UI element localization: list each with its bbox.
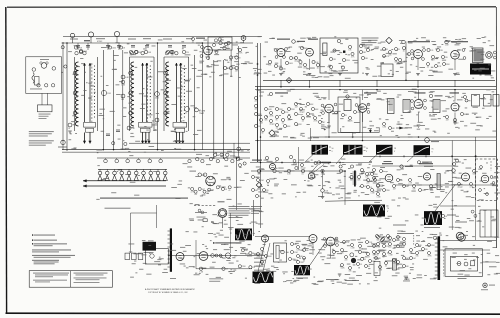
wire selector top rail	[97, 157, 250, 159]
volume control black box	[143, 242, 157, 251]
text noise crt area	[378, 250, 381, 253]
page border top rule	[7, 6, 496, 8]
audio output photo blob	[470, 64, 491, 75]
sound takeoff box	[208, 37, 232, 50]
wire IF vertical riser 1	[102, 50, 104, 150]
page border left rule	[5, 7, 8, 313]
audio output transformer T4 winding	[473, 48, 484, 63]
remote sound dashed leads	[194, 204, 216, 206]
tube V21 damper	[456, 232, 464, 240]
svg-text:56K: 56K	[148, 52, 152, 54]
svg-text:.047: .047	[257, 174, 260, 176]
ion trap circles	[457, 262, 461, 266]
horiz circles	[452, 169, 456, 173]
video IF can 3	[433, 100, 440, 113]
label 3RD VIDEO IF	[415, 92, 426, 93]
svg-text:220: 220	[283, 68, 286, 70]
svg-text:470K: 470K	[428, 255, 433, 257]
tuner riser circles	[61, 46, 64, 49]
svg-text:70: 70	[387, 208, 389, 210]
label 1ST VIDEO IF	[364, 92, 377, 93]
coil top hline T3	[164, 56, 189, 58]
wire row2 tube stubs down	[328, 113, 330, 123]
can internals	[342, 114, 345, 117]
svg-text:100K: 100K	[268, 109, 273, 111]
svg-text:56K: 56K	[377, 239, 381, 241]
output terminal labels column	[254, 253, 264, 256]
audio amp components	[402, 46, 405, 49]
V20 satellites	[490, 176, 493, 179]
svg-text:270K: 270K	[386, 190, 391, 192]
sound takeoff internals	[214, 39, 217, 42]
diamond junction B+	[386, 37, 392, 43]
IF transformer T3 slug lines	[175, 63, 177, 122]
dashed box lead	[443, 250, 445, 276]
svg-text:56K: 56K	[365, 58, 369, 60]
svg-text:danger: danger	[269, 122, 275, 125]
discriminator transformer box	[320, 38, 358, 73]
audio inter circles	[427, 63, 430, 66]
IF transformer T2 tap circles	[129, 71, 133, 75]
wire selector bar	[98, 168, 167, 170]
ion trap outer box	[445, 249, 483, 276]
svg-text:4.7K: 4.7K	[351, 57, 355, 59]
text noise remote area	[193, 231, 197, 234]
IF transformer T2 terminal circles top	[130, 52, 133, 55]
svg-text:470K: 470K	[446, 64, 451, 66]
power ground	[405, 277, 409, 279]
AGC keying box	[381, 64, 393, 77]
svg-text:6.8K: 6.8K	[131, 128, 135, 130]
svg-text:.047: .047	[194, 194, 197, 196]
table cell text 2	[33, 279, 67, 282]
speaker terminals	[494, 51, 497, 54]
diagonal wire vert	[435, 185, 455, 211]
svg-text:1.5M: 1.5M	[371, 192, 375, 194]
vert osc tube pin	[400, 165, 403, 168]
wire vert bus upper	[372, 165, 452, 167]
resistor R4	[121, 75, 125, 79]
remote switch tube V13	[218, 209, 227, 218]
svg-text:68: 68	[368, 266, 370, 268]
tube V6 audio amp	[414, 50, 423, 59]
audio tube V26 output	[326, 237, 335, 246]
neck bar top circle	[433, 236, 436, 239]
svg-text:220: 220	[254, 100, 257, 102]
resistor R1	[108, 46, 111, 49]
text noise video strip	[274, 130, 278, 133]
svg-text:.0022: .0022	[400, 169, 404, 171]
wire mixer box drops	[208, 50, 210, 60]
diamond junction sync	[256, 182, 262, 188]
wire audio top rail	[255, 236, 310, 238]
wire mixer top	[196, 42, 253, 44]
right box tube V20	[481, 175, 489, 183]
svg-text:1K: 1K	[345, 115, 348, 117]
svg-text:220: 220	[186, 52, 189, 54]
sound IF passive cluster	[264, 107, 267, 110]
wire left riser B	[260, 43, 262, 162]
sync sep pointer lines	[312, 165, 319, 173]
sound IF can inside box	[323, 43, 327, 56]
svg-text:6.8K: 6.8K	[310, 104, 314, 106]
audio amp tube V22	[176, 253, 184, 261]
svg-text:120: 120	[425, 249, 428, 251]
W2 white dividers	[348, 145, 350, 154]
waveform photo W5	[363, 205, 385, 217]
video det components	[445, 115, 448, 118]
svg-text:33K: 33K	[245, 250, 249, 252]
wire left riser A	[257, 87, 259, 162]
fine tuning can	[38, 105, 53, 112]
notes paragraph 4	[32, 249, 71, 250]
3rd video satellites	[411, 100, 414, 103]
sound IF satellites	[321, 104, 324, 107]
wire lower hline	[196, 268, 252, 270]
IF transformer T3 lead arrows	[175, 133, 177, 144]
wire audio drops	[330, 246, 332, 258]
fine tuning pins	[213, 182, 215, 184]
AGC line cap C9	[127, 126, 131, 130]
vert photo terminal	[441, 214, 444, 217]
note text alternate tuner A	[29, 131, 54, 132]
svg-text:220: 220	[252, 267, 255, 269]
svg-text:220: 220	[266, 190, 269, 192]
tube V11 video det	[451, 103, 459, 111]
mixer screen cap	[227, 41, 230, 44]
svg-text:50: 50	[332, 148, 334, 150]
wire sound strip bottom rail	[263, 79, 495, 81]
bypass caps under T1	[68, 123, 72, 127]
note text alternate tuner B	[29, 140, 54, 141]
audio amp left cluster	[383, 48, 386, 51]
remote note paragraph	[229, 205, 250, 208]
wire vert rail y185	[395, 184, 496, 186]
svg-text:danger: danger	[301, 166, 307, 169]
ampere rating text	[209, 277, 223, 280]
test point TP1	[70, 33, 74, 37]
tube V2 mixer	[204, 46, 213, 55]
svg-text:470K: 470K	[422, 190, 427, 192]
svg-text:56K: 56K	[389, 54, 393, 56]
notes paragraph 6	[32, 260, 59, 261]
svg-text:56K: 56K	[406, 186, 410, 188]
svg-text:1K: 1K	[123, 47, 126, 49]
svg-text:6.8K: 6.8K	[125, 77, 129, 79]
wire video row rail 2	[255, 89, 496, 91]
wire sync main bus	[251, 170, 345, 172]
IF transformer T3 terminal circles top	[165, 52, 168, 55]
wire sync lower shelf	[325, 200, 382, 201]
svg-text:56K: 56K	[306, 250, 310, 252]
disc transformer internals	[337, 39, 340, 42]
grounds video row	[327, 125, 331, 127]
page border right rule	[495, 7, 497, 248]
wire IF vertical riser 7	[213, 60, 215, 158]
table cell text 1	[33, 272, 69, 275]
svg-text:270K: 270K	[242, 266, 247, 268]
audio V26 satellites	[323, 238, 326, 241]
IF transformer T2 slug lines	[142, 63, 144, 122]
wire row1 to row2 connectors	[280, 80, 282, 86]
svg-text:.047: .047	[367, 256, 370, 258]
svg-text:56K: 56K	[392, 128, 396, 130]
long diagonal audio	[310, 239, 328, 266]
svg-text:10K: 10K	[268, 65, 272, 67]
vert components left	[371, 173, 374, 176]
svg-text:.047: .047	[393, 188, 396, 190]
tube V7 audio output	[451, 51, 460, 60]
junction dots on rails	[280, 86, 282, 88]
IF transformer T2 secondary dots	[150, 65, 151, 66]
diamond junction video	[269, 130, 275, 136]
osc section feed circles	[188, 159, 191, 162]
svg-text:1.5M: 1.5M	[357, 112, 361, 114]
power trans label	[385, 260, 392, 263]
svg-text:220: 220	[367, 182, 370, 184]
vert output transformer photo	[424, 212, 442, 226]
svg-text:V: V	[387, 211, 389, 213]
switch bar	[170, 228, 172, 271]
speaker	[486, 52, 493, 59]
phono motor label	[197, 216, 206, 219]
IF transformer T3 secondary dots	[184, 65, 185, 66]
svg-text:220: 220	[229, 60, 232, 62]
IF transformer T3 enclosure left	[163, 57, 165, 131]
svg-text:95: 95	[432, 149, 434, 151]
wire blob left riser	[298, 147, 300, 170]
tuner input coil L1	[32, 73, 34, 84]
test point TP3	[114, 31, 119, 36]
svg-text:10K: 10K	[365, 177, 369, 179]
filter cap box	[274, 243, 287, 262]
coil top stubs	[77, 43, 79, 50]
W7 leads diagonal	[258, 239, 266, 272]
TV phono jack squares	[125, 253, 130, 259]
crt neck bar	[438, 236, 441, 280]
remote amp inner circle	[150, 254, 154, 258]
svg-text:.05: .05	[225, 189, 227, 191]
selector contact towers	[99, 169, 101, 171]
audio tube V25 phase inv	[309, 235, 317, 243]
selector wiper arrow lower	[83, 185, 166, 187]
svg-text:1.5M: 1.5M	[199, 271, 203, 273]
svg-text:220: 220	[345, 259, 348, 261]
svg-text:15K: 15K	[416, 255, 420, 257]
svg-text:2.2K: 2.2K	[325, 190, 329, 192]
svg-text:.05: .05	[129, 55, 131, 57]
svg-text:.01: .01	[360, 264, 362, 266]
tuner cap block	[35, 77, 40, 86]
label VIDEO DET	[450, 92, 460, 93]
mixer satellite pins	[201, 46, 204, 49]
wire IF bottom bus 1	[62, 149, 250, 151]
svg-text:56K: 56K	[255, 190, 259, 192]
svg-text:15K: 15K	[333, 59, 337, 61]
coil top hline T2	[130, 56, 155, 58]
svg-text:.05: .05	[275, 127, 277, 129]
IF bus label smudges	[70, 39, 78, 40]
IF transformer T2 enclosure left	[129, 57, 131, 131]
tube V10 3rd video IF	[414, 100, 423, 109]
svg-text:2.2K: 2.2K	[379, 269, 383, 271]
IF transformer T1 terminal strip lower	[86, 128, 94, 132]
3rd video label circle	[429, 94, 432, 97]
limiter components	[312, 60, 315, 63]
waveform photo W2	[343, 145, 363, 155]
wire tuner output	[62, 71, 64, 73]
coil terminal circles top T2	[129, 50, 132, 53]
wire IF vertical riser 4	[157, 43, 159, 150]
dotted riser	[413, 235, 415, 245]
IF transformer T2 terminal strip lower	[141, 128, 151, 132]
B plus terminal	[483, 283, 487, 287]
wire osc right riser	[236, 158, 238, 210]
label AGC keyer	[252, 160, 262, 161]
tuner inner smudges	[40, 58, 49, 61]
wire IF top bus	[62, 42, 203, 44]
video det couple circles	[464, 96, 467, 99]
sound det can	[344, 100, 351, 111]
converter label	[196, 38, 205, 39]
arrow down y130	[369, 129, 371, 133]
mixer bias circles	[223, 66, 226, 69]
svg-text:470K: 470K	[374, 174, 379, 176]
IF transformer T2 core dashed line	[147, 63, 149, 122]
wire tuner to IF riser	[62, 44, 64, 150]
horiz osc tube V19	[462, 173, 470, 181]
IF transformer T1 terminal circles top	[75, 52, 78, 55]
wire top right drops	[474, 137, 476, 156]
IF transformer T3 terminal strip lower	[175, 128, 185, 132]
video det filter box 1	[472, 95, 480, 107]
svg-text:270K: 270K	[238, 53, 243, 55]
sync left components	[252, 176, 255, 179]
svg-text:68: 68	[377, 254, 379, 256]
svg-text:220: 220	[254, 108, 257, 110]
IF transformer T2 lead arrows	[142, 133, 144, 144]
wire sync upper rail	[250, 162, 372, 164]
wire IF vertical riser 8	[223, 60, 225, 158]
sync resistor ladder bar	[354, 171, 356, 187]
text noise sync area	[261, 168, 264, 171]
label pict tube hookup	[455, 222, 467, 223]
audio output tube V23	[199, 252, 208, 261]
deflection yoke box	[480, 210, 498, 237]
IF transformer T2 enclosure right	[153, 57, 155, 131]
wire IF vertical riser 5	[194, 55, 196, 150]
svg-text:.01: .01	[192, 41, 194, 43]
svg-text:1K: 1K	[227, 46, 230, 48]
tube V9 1st video IF	[358, 104, 367, 113]
speaker label	[190, 171, 197, 172]
audio right cluster	[341, 249, 344, 252]
svg-text:4.7K: 4.7K	[299, 65, 303, 67]
wire long bus y156 right	[363, 155, 496, 157]
wire video row rail 1	[255, 86, 496, 88]
wire long bus y140	[255, 140, 496, 142]
tube V3 ratio detector	[277, 49, 285, 57]
svg-text:56K: 56K	[264, 119, 268, 121]
IF transformer T3 terminal strip upper	[173, 123, 187, 128]
wire yoke shelf	[440, 205, 475, 207]
IF transformer T3 tap circles	[164, 71, 168, 75]
svg-text:220: 220	[389, 246, 392, 248]
label IF AMP AGC LIMITER	[402, 40, 406, 44]
W1 white dividers	[315, 145, 317, 154]
remote mid circles	[211, 254, 215, 258]
bus circles left	[112, 142, 115, 145]
svg-text:120: 120	[430, 50, 433, 52]
right box dashed divider	[490, 161, 492, 171]
svg-text:6.8K: 6.8K	[383, 126, 387, 128]
svg-text:120: 120	[258, 126, 261, 128]
tube V4 limiter	[306, 48, 314, 56]
ratio det components	[268, 60, 271, 63]
svg-text:28: 28	[394, 148, 396, 150]
resistor R5	[121, 94, 125, 98]
waveform photo W3	[376, 145, 393, 155]
disc internals 2	[342, 58, 345, 61]
svg-text:1.5M: 1.5M	[294, 252, 298, 254]
svg-text:270K: 270K	[269, 115, 274, 117]
audio amp satellites	[411, 50, 414, 53]
test point TP5	[241, 36, 246, 41]
service table divider	[70, 271, 72, 288]
text noise audio bottom	[366, 272, 371, 275]
wire crt hline 2	[440, 249, 490, 251]
svg-text:56K: 56K	[400, 180, 404, 182]
label AUDIO OUTPUT	[445, 40, 449, 44]
svg-text:1.5M: 1.5M	[445, 45, 449, 47]
sound strip grounds	[279, 73, 283, 75]
tube V8 sound IF amp	[325, 104, 334, 113]
svg-text:.047: .047	[370, 50, 373, 52]
svg-text:.05: .05	[385, 265, 387, 267]
svg-text:.0022: .0022	[112, 47, 116, 49]
svg-text:A PHOTOFACT STANDARD NOTATION: A PHOTOFACT STANDARD NOTATION SCHEMATIC	[145, 288, 195, 291]
svg-text:danger: danger	[458, 185, 464, 188]
waveform photo W4	[414, 145, 431, 155]
test point TP2	[88, 32, 93, 37]
remote switch pins	[225, 213, 227, 215]
svg-text:2.2K: 2.2K	[409, 182, 413, 184]
label VERT OUTPUT	[419, 163, 433, 164]
sync area note text block	[251, 205, 262, 208]
svg-text:68: 68	[364, 259, 366, 261]
wire output hline	[168, 255, 265, 257]
wire crt top hline	[440, 240, 496, 242]
svg-text:1.5M: 1.5M	[389, 254, 393, 256]
wire x406 riser	[405, 43, 407, 80]
video det filter box 3	[493, 95, 499, 107]
svg-text:6.8K: 6.8K	[380, 186, 384, 188]
notes paragraph 3	[32, 243, 33, 244]
left edge junction box	[374, 261, 380, 275]
wire tuner stubs down	[41, 93, 43, 105]
right enclosure box dashed	[476, 159, 498, 201]
2nd IF amp circles	[155, 92, 160, 97]
wire v2305	[230, 213, 232, 253]
IF bus junction circles	[237, 147, 241, 151]
blob shelf lines	[341, 132, 379, 134]
wire selector riser down	[156, 205, 158, 228]
svg-text:56K: 56K	[363, 52, 367, 54]
svg-text:.0022: .0022	[155, 97, 159, 99]
svg-text:220: 220	[445, 57, 448, 59]
svg-text:270K: 270K	[291, 109, 296, 111]
mixer label plate	[84, 40, 90, 41]
